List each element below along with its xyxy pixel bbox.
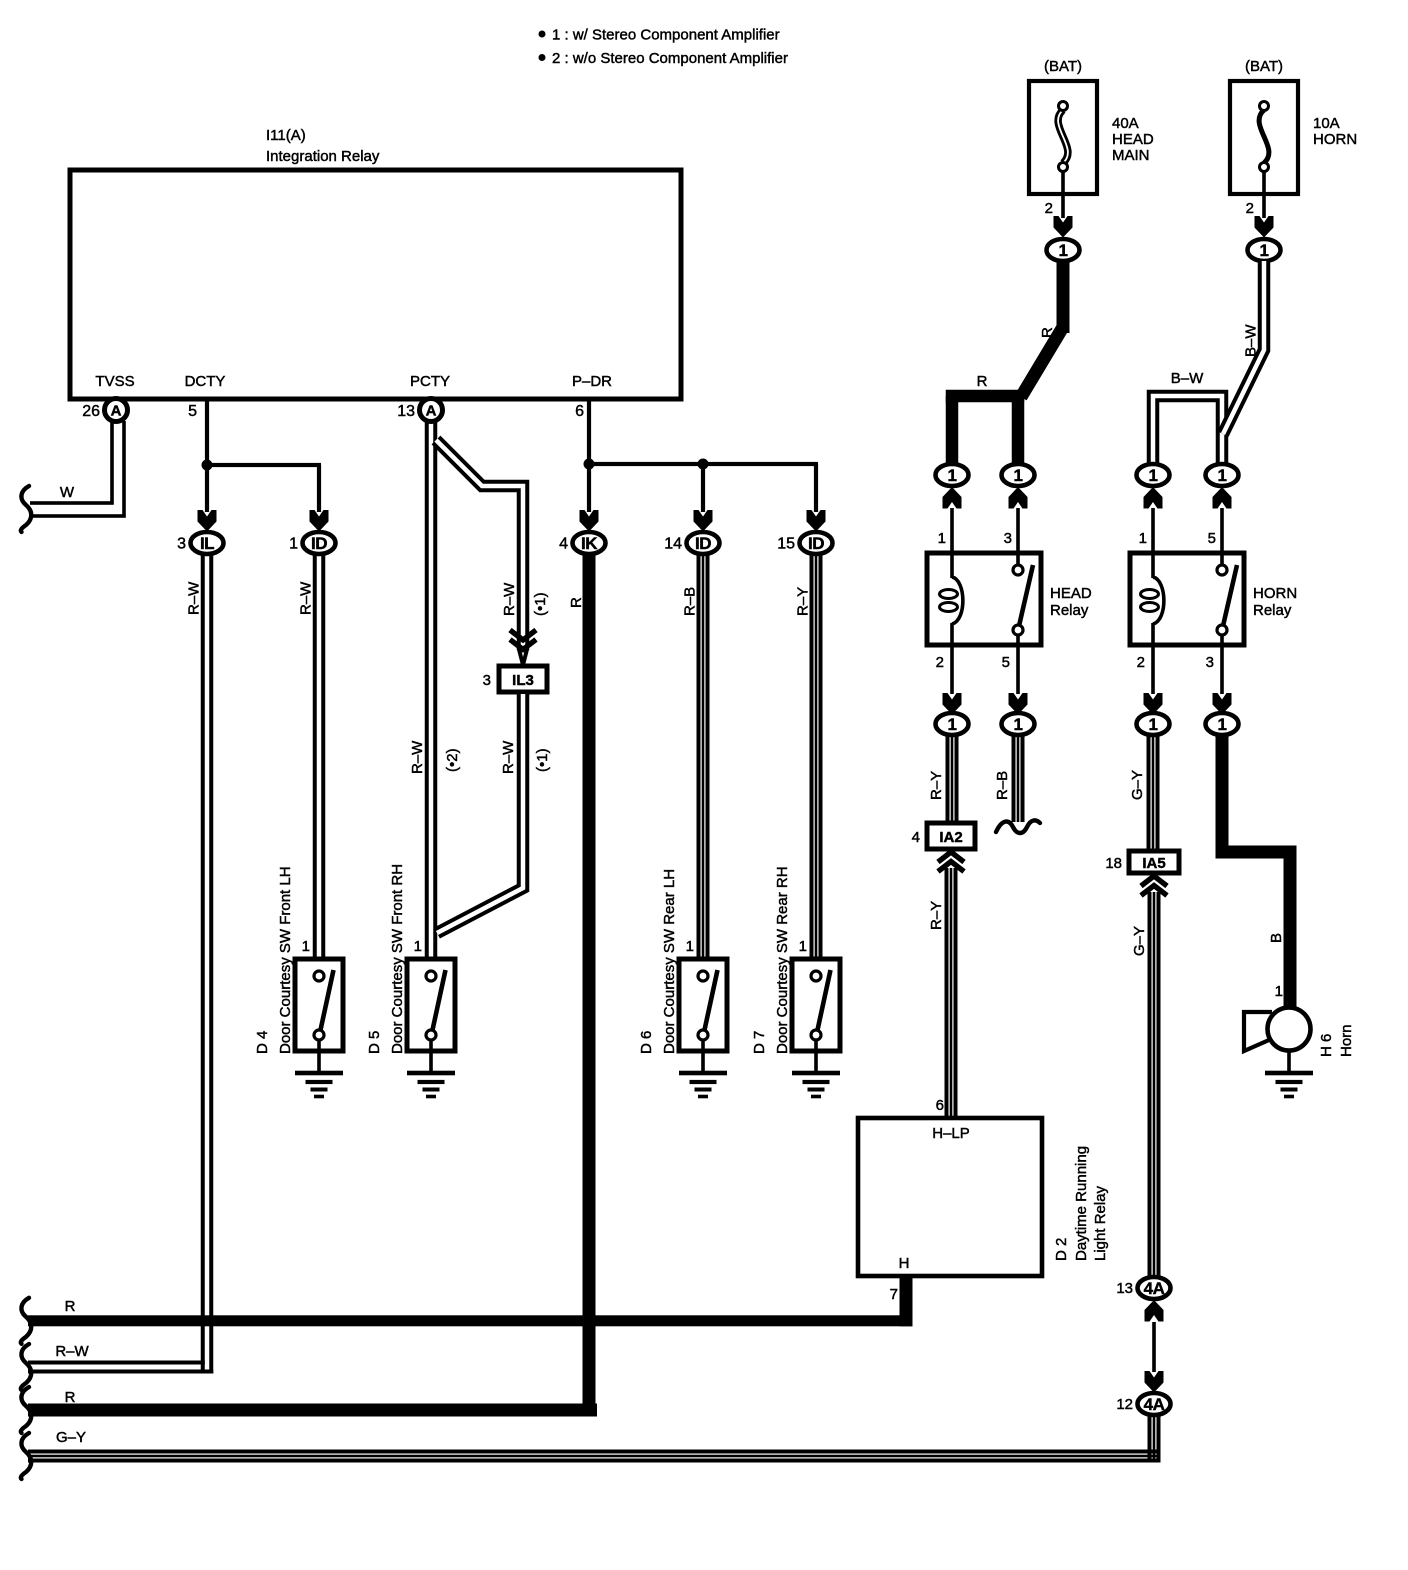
wire G-Y from 12 4A to bus: [1148, 1415, 1152, 1463]
horn relay pin 3 lead: [1206, 645, 1224, 694]
svg-text:4: 4: [559, 536, 568, 553]
connector oval 1 below horn relay pin 2: [1137, 713, 1170, 735]
svg-text:Relay: Relay: [1050, 602, 1089, 619]
svg-text:R–Y: R–Y: [928, 901, 945, 930]
wire R-B stub from head relay pin 5: [994, 735, 1025, 822]
svg-text:R: R: [977, 373, 988, 390]
connector arrow into head relay pin2 oval: [943, 693, 962, 715]
wire R-W (*1) from IL3 down to door courtesy SW front RH: [437, 694, 551, 933]
svg-text:G–Y: G–Y: [1131, 926, 1148, 956]
svg-text:13: 13: [397, 403, 415, 420]
svg-text:26: 26: [82, 403, 100, 420]
svg-text:Door Courtesy SW Front RH: Door Courtesy SW Front RH: [389, 864, 406, 1054]
svg-text:G–Y: G–Y: [56, 1429, 86, 1446]
wire B-W from horn fuse to horn relay: [1223, 261, 1264, 434]
connector oval 1 head relay pin 3 feed: [1002, 464, 1035, 486]
svg-text:3: 3: [483, 672, 491, 689]
svg-text:2: 2: [936, 654, 944, 671]
svg-text:I11(A): I11(A): [266, 127, 306, 144]
wire R-B from ID 14 to door courtesy SW rear LH: [682, 553, 710, 972]
pin 26 connector A of TVSS: [82, 399, 127, 422]
svg-text:W: W: [60, 484, 75, 501]
head relay pin 3 lead: [1004, 508, 1020, 554]
svg-text:12: 12: [1116, 1396, 1133, 1413]
fuse 10A HORN (BAT): [1230, 58, 1357, 194]
svg-text:(•1): (•1): [534, 748, 551, 772]
connector oval 1 below head relay pin 2: [936, 713, 969, 735]
integration relay I11(A) box: [70, 170, 681, 399]
svg-text:1: 1: [686, 938, 694, 955]
pin 6 P-DR lead: [575, 399, 591, 466]
connector arrow up below horn oval 5: [1213, 487, 1232, 509]
svg-text:Horn: Horn: [1338, 1024, 1355, 1057]
svg-text:A: A: [426, 403, 437, 420]
svg-text:5: 5: [188, 403, 197, 420]
horn relay box with coil and switch: [1130, 553, 1297, 645]
double chevron arrow into IA2: [938, 852, 964, 862]
connector oval 4 IK: [559, 532, 605, 554]
connector oval 1 head relay pin 1 feed: [936, 464, 969, 486]
svg-text:H: H: [899, 1255, 910, 1272]
junction node on P-DR branch: [698, 459, 709, 470]
svg-text:1: 1: [948, 466, 957, 485]
svg-text:4A: 4A: [1144, 1279, 1165, 1298]
svg-text:HORN: HORN: [1253, 585, 1297, 602]
svg-text:2: 2: [1045, 200, 1053, 217]
wire R-W from IL to bus: [186, 553, 214, 1374]
svg-text:1: 1: [1218, 466, 1227, 485]
svg-text:18: 18: [1105, 855, 1122, 872]
wire between 4A connectors: [1152, 1322, 1156, 1372]
svg-text:D 7: D 7: [751, 1031, 768, 1054]
connector oval 1 of horn feed: [1248, 239, 1281, 261]
svg-text:2: 2: [1137, 654, 1145, 671]
horn H6 symbol: [1244, 1008, 1355, 1058]
svg-text:Light Relay: Light Relay: [1092, 1185, 1109, 1261]
wire R-W (*1) branch from PCTY to IL3: [436, 440, 549, 665]
junction connector 18 IA5 box: [1105, 851, 1179, 873]
daytime running light relay D2 box: [858, 1118, 1109, 1276]
wire R-W (*2) straight from PCTY to door courtesy SW front RH: [409, 421, 461, 972]
svg-text:R–W: R–W: [186, 581, 203, 615]
svg-text:P–DR: P–DR: [572, 373, 612, 390]
connector arrow up into 13 4A: [1145, 1300, 1164, 1322]
connector oval 1 horn relay pin 5 feed: [1206, 464, 1239, 486]
connector arrow into head relay pin5 oval: [1009, 693, 1028, 715]
svg-text:(•1): (•1): [532, 592, 549, 616]
svg-text:1: 1: [938, 530, 946, 547]
connector arrow into horn relay pin2 oval: [1144, 693, 1163, 715]
wire P-DR branch to rear door connectors: [587, 462, 818, 512]
svg-text:Integration Relay: Integration Relay: [266, 148, 380, 165]
svg-text:Relay: Relay: [1253, 602, 1292, 619]
ground below horn: [1265, 1050, 1313, 1098]
double chevron arrow into IA5: [1141, 876, 1167, 886]
svg-text:(•2): (•2): [444, 748, 461, 772]
svg-text:DCTY: DCTY: [185, 373, 226, 390]
wire R loop over head relay: [946, 373, 1025, 465]
svg-text:R–W: R–W: [55, 1343, 89, 1360]
svg-text:Daytime Running: Daytime Running: [1073, 1146, 1090, 1261]
svg-text:TVSS: TVSS: [95, 373, 134, 390]
connector oval 1 of head main feed: [1047, 239, 1080, 261]
door courtesy switch D5 front RH: [366, 864, 455, 1098]
svg-text:IA2: IA2: [939, 829, 962, 846]
wire R-Y from ID 15 to door courtesy SW rear RH: [795, 553, 823, 972]
svg-text:7: 7: [890, 1286, 898, 1303]
svg-text:1: 1: [1218, 715, 1227, 734]
svg-text:R–B: R–B: [994, 771, 1011, 800]
connector arrow into ID pin 1: [310, 510, 329, 532]
svg-text:6: 6: [575, 403, 584, 420]
fuse 10A pin 2 lead: [1246, 171, 1266, 218]
connector oval 15 ID: [777, 532, 832, 554]
junction node on P-DR wire at IK: [584, 459, 595, 470]
connector oval 1 below head relay pin 5: [1002, 713, 1035, 735]
svg-text:2 : w/o Stereo Component Ampli: 2 : w/o Stereo Component Amplifier: [552, 50, 788, 67]
svg-text:IK: IK: [581, 534, 598, 553]
wire R-Y from head relay to IA2: [928, 735, 959, 824]
fuse 40A pin 2 lead: [1045, 171, 1065, 218]
svg-text:1: 1: [1149, 466, 1158, 485]
connector arrow into horn relay pin3 oval: [1213, 693, 1232, 715]
svg-text:Door Courtesy SW Rear RH: Door Courtesy SW Rear RH: [774, 866, 791, 1054]
double chevron arrow into IL3: [510, 630, 536, 640]
wire W from TVSS pin 26: [21, 421, 126, 532]
pin 13 connector A of PCTY: [397, 399, 442, 422]
connector oval 3 IL: [177, 532, 223, 554]
svg-text:R: R: [1039, 327, 1056, 338]
bus wire R lower: [21, 1387, 597, 1433]
horn relay pin 1 lead: [1139, 508, 1155, 554]
svg-text:MAIN: MAIN: [1112, 147, 1150, 164]
svg-text:R–W: R–W: [409, 740, 426, 774]
junction connector 4 IA2 box: [912, 823, 975, 849]
wire R thick from IK down to bus: [568, 553, 596, 1417]
svg-text:R–B: R–B: [682, 587, 699, 616]
connector arrow up below head oval 1: [943, 487, 962, 509]
svg-text:R–W: R–W: [298, 581, 315, 615]
wire B-W loop over horn relay: [1153, 370, 1222, 465]
fuse 40A HEAD MAIN (BAT): [1029, 58, 1154, 194]
head relay pin 1 lead: [938, 508, 954, 554]
svg-text:HEAD: HEAD: [1050, 585, 1092, 602]
door courtesy switch D6 rear LH: [638, 869, 727, 1098]
svg-text:(BAT): (BAT): [1245, 58, 1283, 75]
svg-text:1: 1: [1014, 715, 1023, 734]
svg-text:R–W: R–W: [501, 582, 518, 616]
svg-text:D 4: D 4: [254, 1031, 271, 1054]
svg-text:2: 2: [1246, 200, 1254, 217]
connector arrow down into 12 4A: [1145, 1371, 1164, 1393]
svg-text:R–Y: R–Y: [795, 587, 812, 616]
svg-text:B–W: B–W: [1243, 324, 1260, 357]
svg-text:1 : w/ Stereo Component Amplif: 1 : w/ Stereo Component Amplifier: [552, 27, 780, 44]
horn relay pin 2 lead: [1137, 645, 1155, 694]
door courtesy switch D4 front LH: [254, 866, 343, 1098]
connector oval 12 4A: [1116, 1393, 1170, 1415]
bus wire R upper: [21, 1298, 913, 1344]
svg-text:A: A: [111, 403, 122, 420]
wire R-Y from IA2 to daytime running light relay: [928, 868, 958, 1119]
svg-text:B–W: B–W: [1171, 370, 1204, 387]
svg-text:1: 1: [289, 536, 298, 553]
connector arrow into horn fuse oval: [1255, 216, 1274, 238]
junction node on DCTY wire: [202, 460, 213, 471]
legend note 1: w/ Stereo Component Amplifier: [539, 27, 780, 44]
wire DCTY branch to door courtesy connectors: [205, 463, 321, 512]
svg-text:ID: ID: [808, 534, 824, 553]
svg-text:Door Courtesy SW Front LH: Door Courtesy SW Front LH: [277, 866, 294, 1054]
svg-text:5: 5: [1002, 654, 1010, 671]
svg-text:PCTY: PCTY: [410, 373, 450, 390]
pin 5 DCTY lead: [188, 399, 209, 467]
svg-text:IL3: IL3: [512, 672, 534, 689]
svg-text:14: 14: [664, 536, 682, 553]
svg-text:G–Y: G–Y: [1129, 770, 1146, 800]
svg-text:15: 15: [777, 536, 795, 553]
svg-text:(BAT): (BAT): [1044, 58, 1082, 75]
svg-text:1: 1: [799, 938, 807, 955]
svg-text:R–W: R–W: [500, 740, 517, 774]
horn relay pin 5 lead: [1208, 508, 1224, 554]
connector arrow into ID pin 15: [807, 510, 826, 532]
legend note 2: w/o Stereo Component Amplifier: [539, 50, 788, 67]
svg-text:3: 3: [1004, 530, 1012, 547]
svg-text:3: 3: [1206, 654, 1214, 671]
svg-text:5: 5: [1208, 530, 1216, 547]
svg-text:IA5: IA5: [1142, 855, 1165, 872]
svg-text:HORN: HORN: [1313, 131, 1357, 148]
daytime relay pin 7 wire to R bus: [890, 1276, 913, 1326]
svg-text:1: 1: [414, 938, 422, 955]
svg-text:1: 1: [948, 715, 957, 734]
connector arrow up below horn oval 1: [1144, 487, 1163, 509]
connector oval 1 below horn relay pin 3: [1206, 713, 1239, 735]
bus wire R-W: [21, 1343, 213, 1390]
svg-text:4: 4: [912, 829, 920, 846]
connector oval 13 4A: [1116, 1277, 1170, 1299]
svg-text:3: 3: [177, 536, 186, 553]
integration relay I11(A) title: [266, 127, 380, 165]
connector arrow into ID pin 14: [694, 510, 713, 532]
svg-text:40A: 40A: [1112, 115, 1139, 132]
svg-text:Door Courtesy SW Rear LH: Door Courtesy SW Rear LH: [661, 869, 678, 1054]
wire B thick from horn relay to horn: [1216, 735, 1297, 1008]
bus wire G-Y: [21, 1429, 1161, 1479]
svg-text:R: R: [568, 597, 585, 608]
svg-text:D 6: D 6: [638, 1031, 655, 1054]
head relay pin 5 lead: [1002, 645, 1020, 694]
svg-text:D 5: D 5: [366, 1031, 383, 1054]
connector arrow into IK: [580, 510, 599, 532]
svg-text:R–Y: R–Y: [928, 771, 945, 800]
svg-text:1: 1: [1149, 715, 1158, 734]
svg-text:D 2: D 2: [1053, 1238, 1070, 1261]
svg-text:1: 1: [302, 938, 310, 955]
pigtail end of R-B wire: [996, 820, 1040, 833]
svg-text:H–LP: H–LP: [932, 1125, 970, 1142]
svg-text:13: 13: [1116, 1280, 1133, 1297]
svg-text:1: 1: [1014, 466, 1023, 485]
svg-text:B: B: [1268, 933, 1285, 943]
head relay box with coil and switch: [927, 553, 1092, 645]
wire G-Y from IA5 down to 4A: [1131, 892, 1161, 1277]
svg-text:1: 1: [1260, 241, 1269, 260]
svg-text:H 6: H 6: [1318, 1034, 1335, 1057]
svg-text:IL: IL: [200, 534, 214, 553]
svg-text:4A: 4A: [1144, 1395, 1165, 1414]
connector oval 14 ID: [664, 532, 719, 554]
svg-text:1: 1: [1139, 530, 1147, 547]
wire R-W from ID to door courtesy SW front LH: [298, 553, 326, 972]
connector oval 1 horn relay pin 1 feed: [1137, 464, 1170, 486]
svg-text:HEAD: HEAD: [1112, 131, 1154, 148]
connector arrow into IL: [198, 510, 217, 532]
door courtesy switch D7 rear RH: [751, 866, 840, 1098]
svg-text:R: R: [65, 1389, 76, 1406]
svg-text:6: 6: [936, 1097, 944, 1114]
svg-text:R: R: [65, 1298, 76, 1315]
head relay pin 2 lead: [936, 645, 954, 694]
wire R thick from head fuse to head relay: [1021, 261, 1070, 397]
connector arrow into head fuse oval: [1054, 216, 1073, 238]
svg-text:1: 1: [1275, 983, 1283, 1000]
wire G-Y from horn relay to IA5: [1129, 735, 1160, 852]
connector oval 1 ID: [289, 532, 335, 554]
svg-text:1: 1: [1059, 241, 1068, 260]
svg-text:10A: 10A: [1313, 115, 1340, 132]
junction connector 3 IL3 box: [483, 666, 547, 692]
connector arrow up below head oval 3: [1009, 487, 1028, 509]
svg-text:ID: ID: [695, 534, 711, 553]
svg-text:ID: ID: [311, 534, 327, 553]
